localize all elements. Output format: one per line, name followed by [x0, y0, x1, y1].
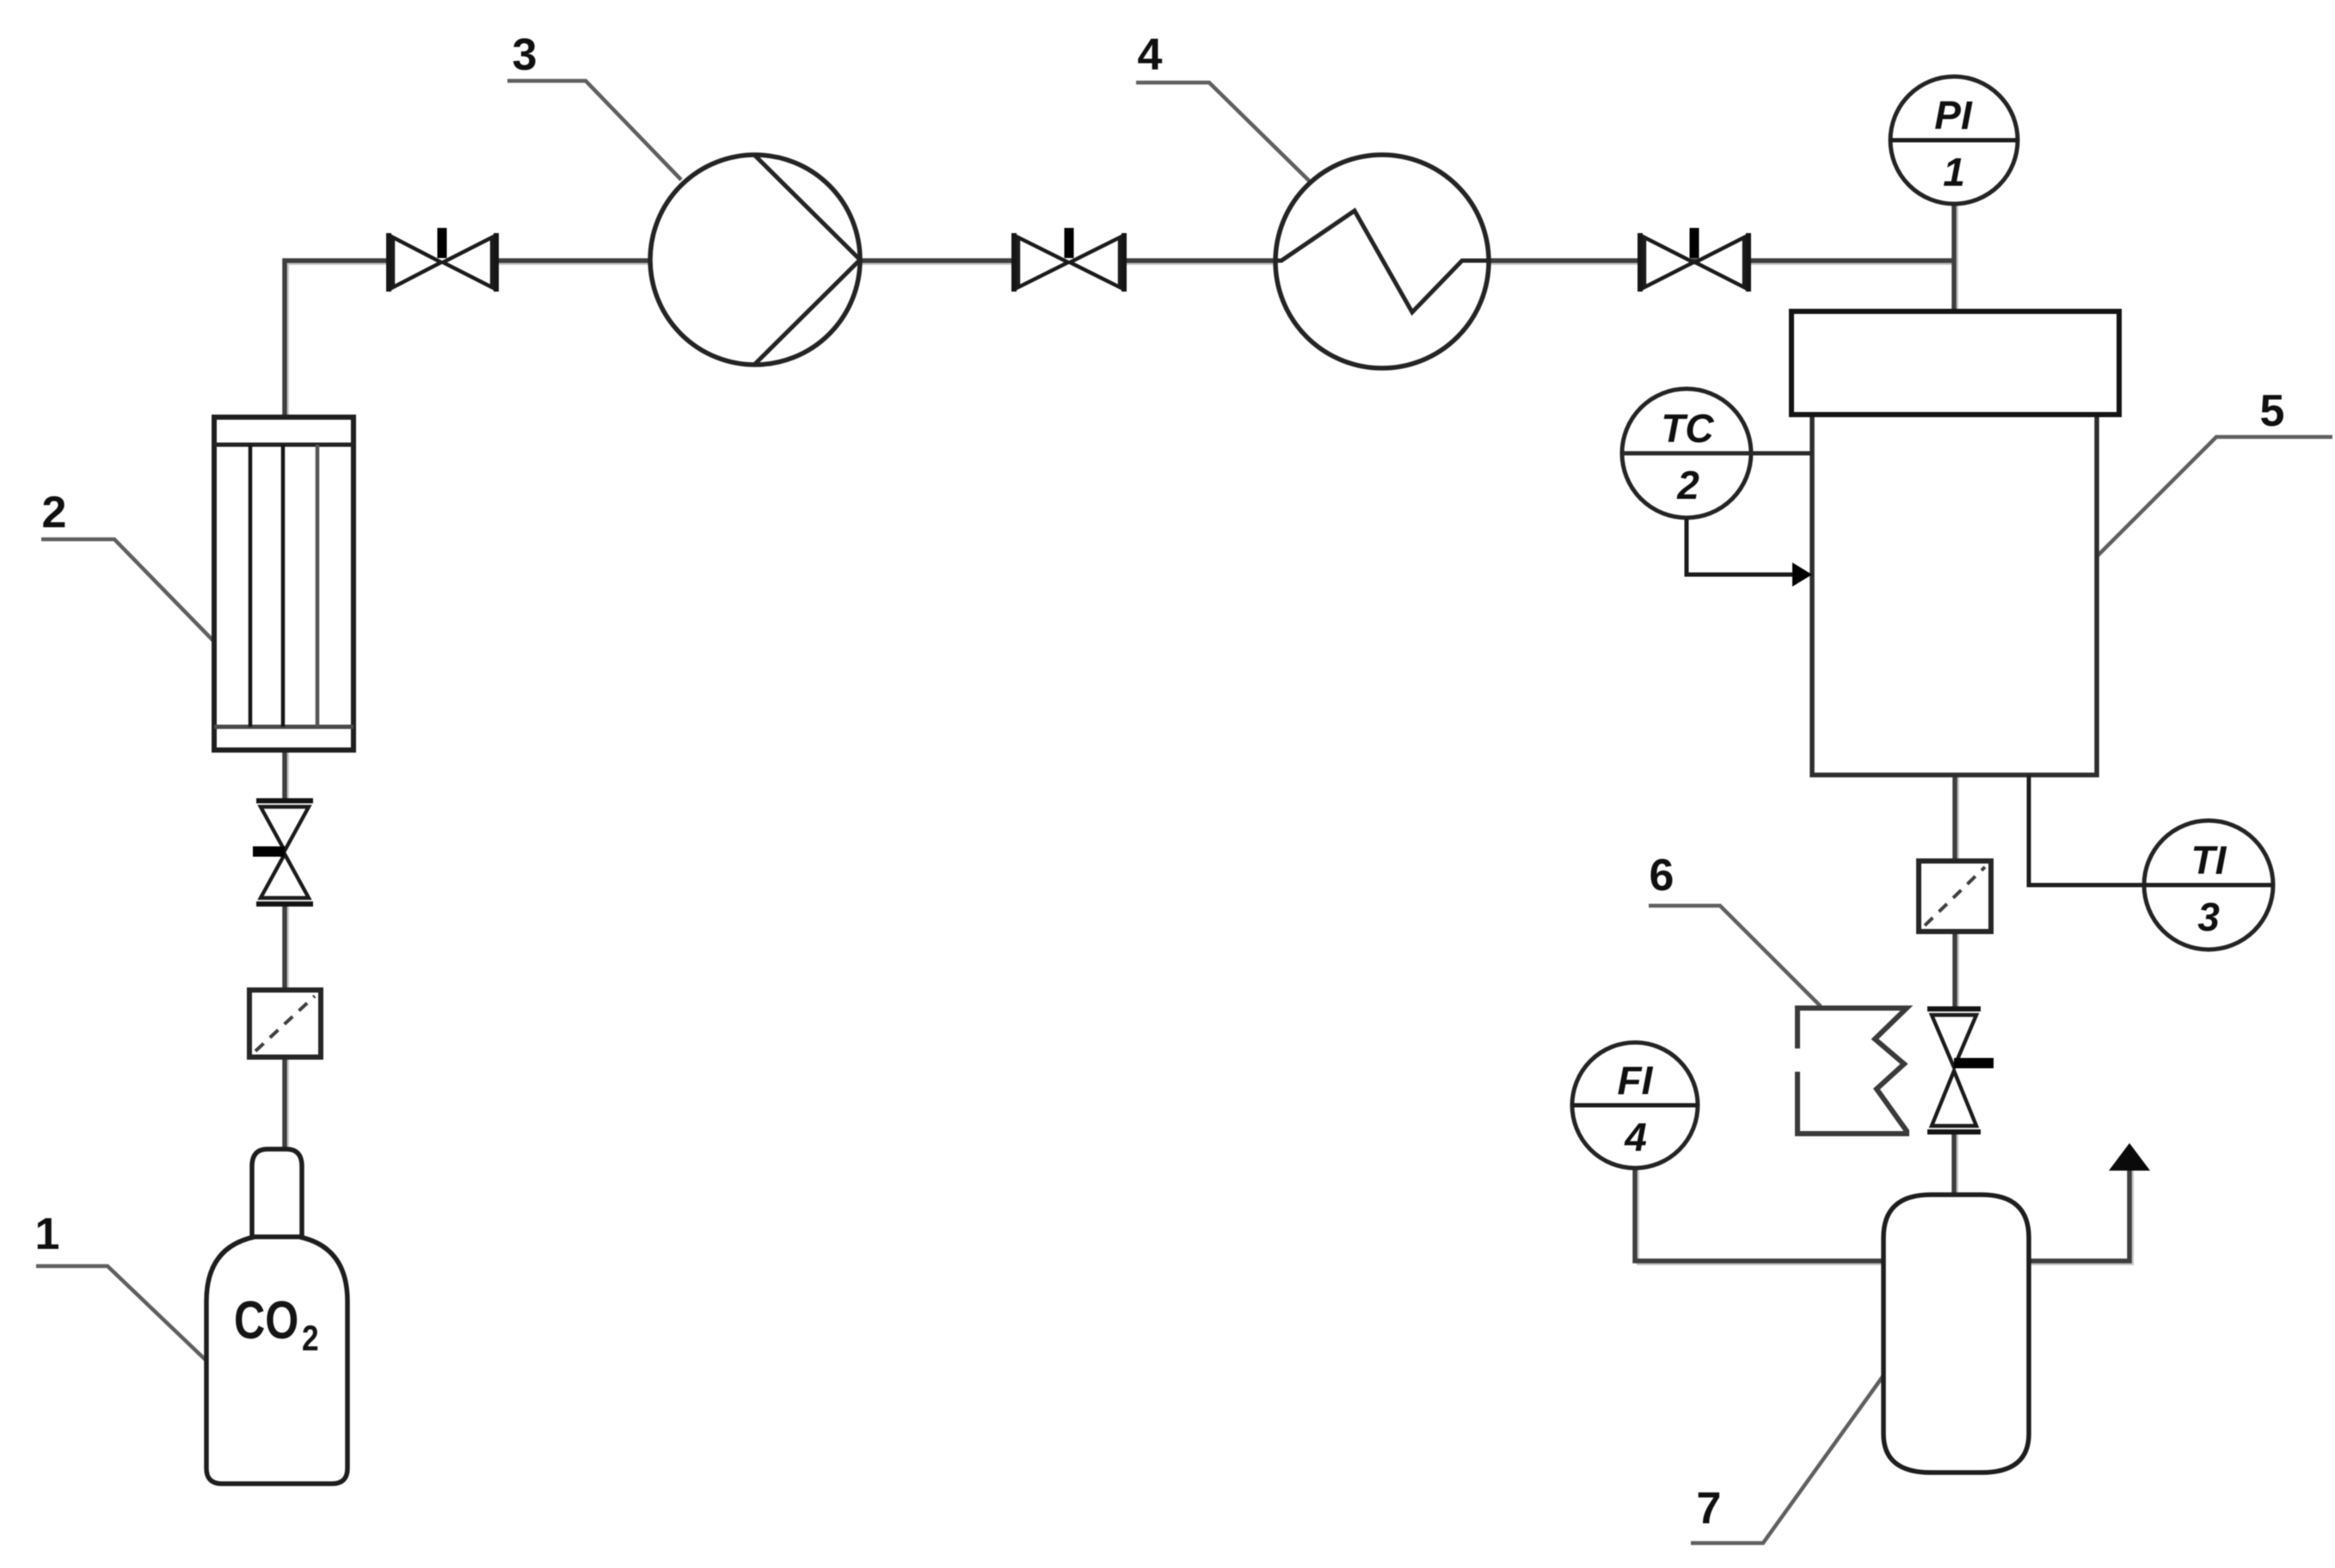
label 2 leader — [41, 539, 215, 643]
instrument PI-1 — [1890, 77, 2018, 204]
valve V2 (between pump and heat exchanger) — [1014, 228, 1124, 292]
check valve square on cylinder line — [249, 990, 321, 1057]
svg-text:CO: CO — [234, 1290, 298, 1350]
wire: TC link to vessel — [1623, 452, 1812, 456]
svg-text:TI: TI — [2191, 838, 2227, 882]
column / cooler (component 2) — [214, 417, 353, 750]
valve V1 (between column and pump) — [389, 228, 496, 292]
expansion valve V4 (vertical) — [1927, 1009, 1994, 1132]
wire: PI stem down into vessel top — [1954, 204, 1957, 311]
shutoff valve below column (vertical) — [253, 801, 313, 904]
instrument FI-4 — [1572, 1042, 1698, 1168]
svg-text:3: 3 — [2197, 895, 2220, 939]
label 1 leader — [36, 1266, 206, 1361]
CO2 cylinder (component 1) — [206, 1149, 347, 1484]
wire: expansion valve to separator top — [1954, 1132, 1957, 1195]
valve V3 (before extraction vessel) — [1640, 228, 1748, 292]
wire: TC actuator line with arrow into vessel — [1687, 518, 1812, 587]
wire: separator right vent line with arrow — [2029, 1143, 2150, 1264]
wire: valve V2 to heat exchanger — [1124, 261, 1275, 264]
instrument TC-2 — [1622, 389, 1751, 518]
restrictor square below vessel — [1919, 861, 1991, 932]
wire: FI stem down and right to separator — [1635, 1168, 1883, 1264]
wire: pump to valve V2 — [860, 261, 1014, 264]
collector coil (component 6) — [1797, 1008, 1907, 1134]
label 3 leader — [507, 81, 681, 180]
svg-text:2: 2 — [302, 1319, 319, 1359]
wire: valve V1 to pump — [496, 261, 650, 264]
svg-text:6: 6 — [1650, 851, 1674, 901]
wire: check valve to valve below column — [285, 904, 288, 990]
svg-text:4: 4 — [1138, 30, 1163, 80]
CO2 text label — [234, 1290, 319, 1359]
wire: vessel right outlet down and to TI (divider) — [2029, 775, 2273, 885]
separator (component 7) — [1883, 1195, 2029, 1473]
svg-text:5: 5 — [2260, 386, 2285, 436]
svg-text:2: 2 — [42, 488, 67, 538]
pump (component 3) — [650, 155, 860, 365]
wire: restrictor to expansion valve — [1955, 932, 1958, 1009]
wire: valve to column bottom — [285, 750, 288, 801]
svg-text:4: 4 — [1624, 1115, 1647, 1159]
label 4 leader — [1136, 83, 1309, 181]
wire: CO2 cylinder neck to check valve — [285, 1057, 288, 1149]
svg-text:FI: FI — [1618, 1058, 1654, 1103]
heat exchanger (component 4) — [1275, 155, 1489, 368]
svg-text:TC: TC — [1661, 406, 1714, 451]
wire: vessel bottom center outlet to restrictor — [1955, 775, 1958, 861]
wire: column top up and right to valve V1 — [285, 261, 389, 417]
extraction vessel (component 5) — [1791, 311, 2119, 775]
label 6 leader — [1649, 906, 1821, 1006]
instrument TI-3 — [2144, 821, 2273, 950]
svg-text:1: 1 — [35, 1209, 60, 1259]
svg-text:3: 3 — [513, 30, 538, 80]
svg-text:2: 2 — [1676, 463, 1699, 507]
svg-text:PI: PI — [1934, 93, 1973, 138]
wire: heat exchanger to valve V3 and junction — [1488, 261, 1952, 264]
svg-text:1: 1 — [1943, 150, 1965, 194]
label 7 leader — [1691, 1372, 1886, 1543]
svg-text:7: 7 — [1697, 1484, 1722, 1534]
label 5 leader — [2097, 437, 2332, 556]
